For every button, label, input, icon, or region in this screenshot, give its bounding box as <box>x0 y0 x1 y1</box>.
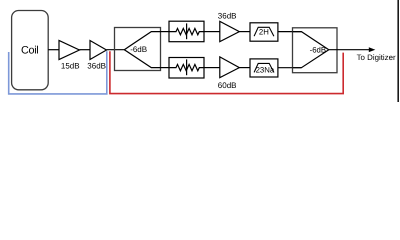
wire A3 to filter FL1 <box>239 31 250 33</box>
output arrow wire <box>329 49 370 51</box>
wire R2 to amp A4 <box>204 67 220 69</box>
wire FL2 to combiner <box>278 67 302 69</box>
svg-text:-6dB: -6dB <box>310 46 326 55</box>
wire preamp1 to preamp2 <box>79 49 90 51</box>
filter FL2 box <box>250 59 278 77</box>
wire preamp2 to splitter <box>107 49 125 51</box>
svg-text:60dB: 60dB <box>218 81 237 90</box>
svg-text:36dB: 36dB <box>87 61 106 70</box>
filter FL1 box <box>250 23 278 41</box>
svg-text:2H: 2H <box>259 28 269 37</box>
red cable (preamp to digitizer coax) <box>110 51 343 93</box>
amp A3 triangle <box>220 21 240 41</box>
svg-text:23Na: 23Na <box>256 65 275 74</box>
filter FL1 bandpass trapezoid <box>254 27 274 36</box>
combiner upper diagonal <box>293 32 329 50</box>
splitter fork lower diagonal <box>124 50 160 68</box>
wire FL1 to combiner <box>278 31 302 33</box>
svg-text:15dB: 15dB <box>61 61 80 70</box>
figure right border line <box>397 0 399 102</box>
svg-text:-6dB: -6dB <box>130 45 147 54</box>
coil box <box>12 11 49 90</box>
svg-text:To Digitizer: To Digitizer <box>357 53 396 62</box>
splitter box U1 <box>115 28 161 71</box>
amp A4 triangle <box>220 57 240 78</box>
attenuator R1 resistor zigzag <box>169 28 204 34</box>
preamp A2 triangle <box>90 41 107 60</box>
wire coil to preamp1 <box>48 49 59 51</box>
combiner box U2 <box>293 28 338 73</box>
wire A4 to filter FL2 <box>239 67 250 69</box>
preamp A1 triangle <box>59 41 79 60</box>
svg-text:36dB: 36dB <box>218 11 237 20</box>
attenuator R1 box <box>169 21 204 42</box>
filter FL2 bandpass trapezoid <box>254 63 274 72</box>
blue cable (coil to preamp coax) <box>9 51 107 94</box>
wire R1 to amp A3 <box>204 31 220 33</box>
combiner lower diagonal <box>293 50 329 68</box>
wire splitter to attenuator R1 <box>161 31 177 33</box>
attenuator R1 wiper <box>186 23 188 39</box>
svg-text:Coil: Coil <box>21 45 38 57</box>
output arrowhead <box>369 47 376 52</box>
splitter fork upper diagonal <box>124 32 160 50</box>
attenuator R2 resistor zigzag <box>169 64 204 70</box>
wire splitter to attenuator R2 <box>161 67 177 69</box>
attenuator R2 wiper <box>186 59 188 75</box>
attenuator R2 box <box>169 58 204 79</box>
